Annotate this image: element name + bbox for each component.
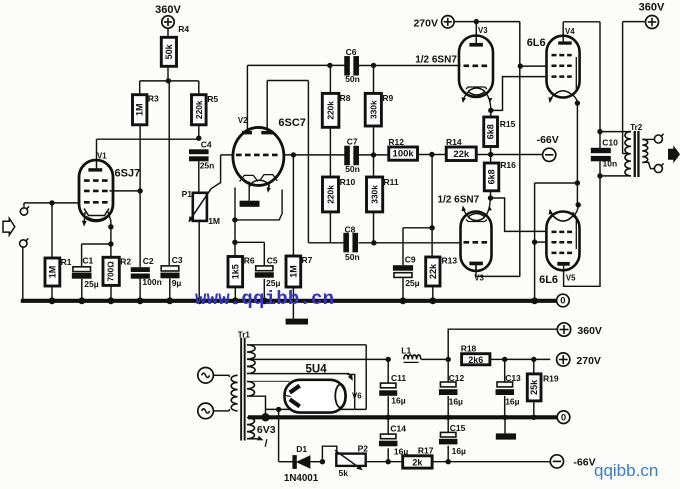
svg-text:16µ: 16µ — [394, 447, 408, 457]
svg-text:360V: 360V — [639, 1, 665, 13]
svg-text:25µ: 25µ — [405, 278, 419, 288]
svg-text:R10: R10 — [340, 177, 356, 187]
svg-text:100k: 100k — [393, 149, 415, 160]
svg-text:R6: R6 — [244, 256, 255, 266]
svg-text:22k: 22k — [428, 263, 438, 279]
svg-text:Tr2: Tr2 — [630, 123, 643, 132]
svg-text:V6: V6 — [352, 392, 362, 401]
svg-text:C12: C12 — [449, 373, 465, 383]
svg-text:V4: V4 — [565, 27, 575, 36]
svg-text:50n: 50n — [345, 164, 360, 174]
svg-text:R13: R13 — [442, 256, 458, 266]
svg-text:C15: C15 — [450, 423, 466, 433]
svg-text:R18: R18 — [461, 344, 477, 354]
svg-text:V1: V1 — [97, 151, 107, 160]
svg-text:C4: C4 — [201, 139, 212, 149]
svg-text:0: 0 — [561, 412, 566, 423]
svg-text:R1: R1 — [61, 257, 72, 267]
svg-text:R5: R5 — [207, 94, 218, 104]
svg-text:C13: C13 — [505, 373, 521, 383]
svg-text:R2: R2 — [120, 257, 131, 267]
svg-text:L1: L1 — [401, 346, 411, 356]
svg-text:2k6: 2k6 — [468, 355, 483, 365]
svg-text:5U4: 5U4 — [306, 363, 328, 375]
svg-text:100n: 100n — [142, 277, 161, 287]
svg-text:R19: R19 — [543, 374, 559, 384]
svg-text:R7: R7 — [302, 255, 313, 265]
svg-text:-66V: -66V — [537, 134, 559, 146]
svg-text:270V: 270V — [576, 355, 601, 367]
svg-text:6SC7: 6SC7 — [278, 117, 306, 129]
svg-text:R16: R16 — [500, 160, 516, 170]
svg-text:25µ: 25µ — [266, 278, 280, 288]
svg-text:25µ: 25µ — [84, 279, 98, 289]
svg-text:1k5: 1k5 — [230, 264, 240, 279]
svg-text:330k: 330k — [370, 185, 380, 204]
svg-text:6SJ7: 6SJ7 — [115, 168, 141, 180]
svg-text:R3: R3 — [148, 94, 159, 104]
svg-text:P1: P1 — [182, 189, 193, 199]
svg-text:1/2 6SN7: 1/2 6SN7 — [438, 195, 480, 206]
svg-text:16µ: 16µ — [391, 396, 405, 406]
svg-text:R9: R9 — [382, 93, 393, 103]
svg-text:9µ: 9µ — [172, 278, 182, 288]
svg-text:1N4001: 1N4001 — [284, 473, 319, 484]
svg-text:16µ: 16µ — [505, 396, 519, 406]
svg-text:C5: C5 — [267, 256, 278, 266]
svg-text:220k: 220k — [326, 101, 336, 120]
svg-text:V3: V3 — [478, 26, 488, 35]
svg-text:R4: R4 — [178, 24, 189, 34]
svg-text:360V: 360V — [155, 4, 181, 16]
svg-text:25n: 25n — [200, 161, 215, 171]
svg-text:270V: 270V — [413, 18, 438, 30]
svg-text:-66V: -66V — [573, 457, 595, 469]
svg-text:1M: 1M — [47, 266, 57, 279]
svg-text:1M: 1M — [135, 103, 145, 116]
svg-text:16µ: 16µ — [452, 446, 466, 456]
svg-text:Tr1: Tr1 — [238, 330, 251, 339]
svg-text:25k: 25k — [529, 379, 539, 395]
svg-text:1/2 6SN7: 1/2 6SN7 — [415, 55, 457, 66]
svg-text:50k: 50k — [164, 43, 174, 59]
svg-text:C14: C14 — [390, 424, 406, 434]
svg-text:1M: 1M — [288, 265, 298, 278]
svg-text:C9: C9 — [405, 255, 416, 265]
svg-text:D1: D1 — [296, 444, 307, 454]
svg-text:C8: C8 — [345, 224, 356, 234]
svg-text:qqibb.cn: qqibb.cn — [594, 461, 658, 480]
svg-text:R11: R11 — [384, 177, 399, 187]
svg-text:P2: P2 — [358, 444, 369, 454]
svg-text:6k8: 6k8 — [486, 124, 496, 139]
svg-text:220k: 220k — [326, 185, 336, 204]
svg-text:R17: R17 — [418, 445, 434, 455]
svg-text:220k: 220k — [194, 100, 204, 119]
svg-text:V5: V5 — [566, 274, 576, 283]
svg-text:10n: 10n — [603, 158, 618, 168]
svg-text:C11: C11 — [391, 373, 406, 383]
svg-text:50n: 50n — [345, 74, 360, 84]
svg-text:R12: R12 — [388, 137, 404, 147]
svg-text:6k8: 6k8 — [487, 169, 497, 184]
svg-text:C10: C10 — [602, 137, 618, 147]
svg-text:C6: C6 — [346, 47, 357, 57]
svg-text:C1: C1 — [82, 256, 93, 266]
svg-text:C2: C2 — [143, 256, 154, 266]
svg-text:16µ: 16µ — [449, 396, 463, 406]
svg-text:R8: R8 — [340, 93, 351, 103]
svg-text:V3: V3 — [474, 273, 484, 282]
svg-text:1M: 1M — [208, 216, 220, 226]
svg-text:0: 0 — [560, 296, 565, 307]
svg-text:6L6: 6L6 — [539, 274, 558, 286]
svg-text:R14: R14 — [446, 137, 462, 147]
svg-text:6V3: 6V3 — [257, 424, 276, 436]
svg-text:C7: C7 — [347, 136, 358, 146]
svg-text:www.qqibb.cn: www.qqibb.cn — [195, 288, 334, 310]
svg-text:330k: 330k — [368, 100, 378, 119]
svg-text:2k: 2k — [412, 457, 423, 467]
svg-text:6L6: 6L6 — [527, 37, 546, 49]
svg-text:V2: V2 — [238, 116, 248, 125]
svg-text:R15: R15 — [500, 119, 516, 129]
svg-text:22k: 22k — [453, 149, 470, 160]
svg-text:C3: C3 — [172, 255, 183, 265]
svg-text:360V: 360V — [577, 325, 602, 337]
svg-text:700Ω: 700Ω — [107, 261, 116, 282]
svg-text:50n: 50n — [345, 252, 360, 262]
svg-text:5k: 5k — [339, 468, 349, 478]
